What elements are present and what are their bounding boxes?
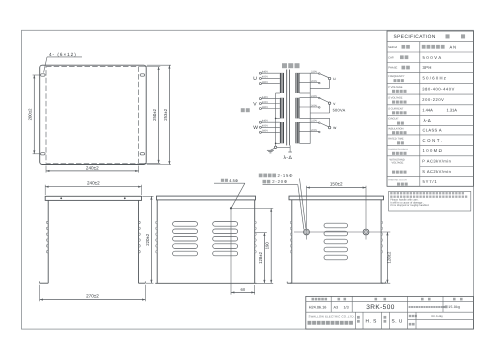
rear view: louver bumps left wall xyxy=(290,221,292,223)
title block vertical lines xyxy=(330,296,332,312)
secondary tap contact xyxy=(319,107,321,109)
side view: flange screw dots xyxy=(60,197,62,199)
svg-text:5Y7/1: 5Y7/1 xyxy=(423,179,438,184)
primary W tap terminal circle xyxy=(259,121,261,123)
size label xyxy=(409,315,411,317)
weight approx 15.0kg xyxy=(445,305,448,308)
svg-text:200V: 200V xyxy=(311,104,317,107)
svg-text:440V: 440V xyxy=(262,96,268,99)
svg-text:RATED TIME: RATED TIME xyxy=(388,137,404,140)
wire W tap 440V xyxy=(261,121,280,123)
front view: louver bumps left wall xyxy=(156,221,158,223)
primary W tap terminal circle xyxy=(259,131,261,133)
ground symbol xyxy=(271,148,275,150)
svg-text:220V: 220V xyxy=(311,71,317,74)
approved label xyxy=(357,316,360,319)
rear view: right foot xyxy=(381,282,386,284)
dimension 190 front view xyxy=(270,208,272,283)
svg-text:λ-Δ: λ-Δ xyxy=(284,155,293,161)
secondary tap contact xyxy=(319,97,321,99)
svg-text:400V: 400V xyxy=(262,76,268,79)
wire secondary u tap 220V xyxy=(300,72,319,74)
dimension 240±2 below top view xyxy=(45,166,47,173)
dimension 150±2 between bushings xyxy=(307,187,367,189)
wire v terminal link xyxy=(329,104,331,113)
wire V winding bottom to star bus xyxy=(276,117,280,119)
svg-text:Method: Method xyxy=(388,46,397,49)
primary V tap terminal circle xyxy=(259,108,261,110)
star bus junction dot V xyxy=(275,118,277,120)
svg-text:380V: 380V xyxy=(262,81,268,84)
bushing 1 vertical center line xyxy=(306,186,308,240)
header scale xyxy=(338,298,341,301)
delta bus vertical wire xyxy=(309,73,311,143)
front view: right wall xyxy=(254,200,256,283)
neutral terminal circle xyxy=(274,146,276,148)
front view: louver slots column 1 xyxy=(173,222,198,227)
handling note box xyxy=(389,191,471,211)
svg-text:INSULATION: INSULATION xyxy=(388,127,403,130)
bushing 2 vertical center line xyxy=(365,186,367,240)
hole position point xyxy=(230,207,232,209)
top view: mounting slot top-left 6x12 xyxy=(41,74,46,76)
wire V tap 440V xyxy=(261,98,280,100)
drawing number label xyxy=(409,323,412,326)
top view: mounting slot top-right xyxy=(140,74,145,76)
extension line at 128 level xyxy=(255,232,267,234)
wire u terminal link xyxy=(329,80,331,89)
primary V tap terminal circle xyxy=(259,103,261,105)
bushing 2 circles xyxy=(363,229,369,235)
svg-text:W: W xyxy=(253,125,258,131)
svg-text:400V: 400V xyxy=(262,125,268,128)
wire w winding bottom to delta bus xyxy=(300,143,311,145)
secondary tap contact xyxy=(319,131,321,133)
header weight xyxy=(453,298,456,301)
rear view: louver bumps right wall xyxy=(381,221,383,223)
leader to bushing 2 xyxy=(298,185,304,230)
svg-text:P AC3kV/min: P AC3kV/min xyxy=(422,159,451,164)
secondary winding w block xyxy=(295,122,299,143)
side view: left foot xyxy=(40,282,49,284)
front view: left wall xyxy=(156,200,158,283)
svg-text:380V: 380V xyxy=(262,106,268,109)
primary star bus wire xyxy=(275,93,277,146)
note japanese line 2 xyxy=(390,196,392,198)
svg-text:CAP.: CAP. xyxy=(388,56,394,59)
top view: mounting slot bottom-left xyxy=(41,153,46,155)
dimension 128±2 rear view xyxy=(386,232,388,283)
wire U tap 440V xyxy=(261,72,280,74)
secondary tap contact xyxy=(319,122,321,124)
specification table row lines xyxy=(387,41,473,43)
front view: bottom extension for dims xyxy=(254,285,256,295)
svg-text:SPECIFICATION: SPECIFICATION xyxy=(394,34,436,40)
dimension 250±2 right of top view xyxy=(139,66,160,68)
side view: right foot xyxy=(139,282,146,284)
svg-text:500VA: 500VA xyxy=(423,55,443,60)
star bus junction dot W xyxy=(275,143,277,145)
company name japanese xyxy=(308,321,312,325)
leader to bushing 1 xyxy=(300,179,306,229)
drawn label xyxy=(384,316,387,319)
wire W winding bottom to star bus xyxy=(276,142,280,144)
specification table outline xyxy=(387,31,473,186)
svg-text:200±2: 200±2 xyxy=(28,108,33,121)
svg-text:A3: A3 xyxy=(334,305,339,309)
core ground lead xyxy=(289,145,291,151)
svg-text:U: U xyxy=(253,76,257,82)
rear view: left foot xyxy=(287,282,292,284)
svg-text:15.0kg: 15.0kg xyxy=(448,305,460,309)
svg-text:CLASS A: CLASS A xyxy=(423,128,442,133)
svg-text:500VA: 500VA xyxy=(333,108,346,113)
wire v winding bottom, runs to w terminal xyxy=(300,117,330,119)
svg-text:250±2: 250±2 xyxy=(152,108,157,121)
wire U winding bottom to star bus xyxy=(276,92,280,94)
top view: plate outline xyxy=(40,65,147,164)
bushing 1 circles xyxy=(304,229,310,235)
secondary winding u block xyxy=(295,73,299,93)
primary U tap terminal circle xyxy=(259,72,261,74)
svg-text:200V: 200V xyxy=(311,129,317,132)
svg-text:380-400-440V: 380-400-440V xyxy=(422,86,455,91)
side view: louver profile bumps left wall xyxy=(47,221,49,223)
title block outline xyxy=(306,296,474,329)
svg-text:380V: 380V xyxy=(262,130,268,133)
svg-text:128±2: 128±2 xyxy=(258,251,263,264)
selector wire to w 220V tap xyxy=(320,123,329,127)
three-phase label SANSO xyxy=(241,108,245,112)
dimension 253±2 far right of top view xyxy=(147,64,171,66)
primary U tap terminal circle xyxy=(259,77,261,79)
note japanese line 1 xyxy=(390,192,392,194)
front view: top flange xyxy=(157,196,256,200)
primary U tap terminal circle xyxy=(259,83,261,85)
core ground tick xyxy=(288,151,292,153)
drawing frame border xyxy=(22,30,474,329)
selector wire to u 220V tap xyxy=(320,74,329,78)
svg-text:3RK-500: 3RK-500 xyxy=(366,304,394,311)
svg-text:RK-S-4kg: RK-S-4kg xyxy=(431,315,443,318)
header issue date xyxy=(312,298,315,301)
front view: louver bumps right wall xyxy=(255,221,257,223)
svg-text:100MΩ: 100MΩ xyxy=(423,148,444,153)
rear view: top flange xyxy=(289,196,384,200)
svg-text:60: 60 xyxy=(241,287,246,292)
primary winding U block xyxy=(280,73,284,93)
machine description xyxy=(409,306,411,308)
wire neutral to core ground xyxy=(277,146,290,148)
dimension 240±2 above side view xyxy=(44,185,46,195)
svg-text:4- (6×12): 4- (6×12) xyxy=(49,52,77,57)
svg-text:PAINTING COLOR: PAINTING COLOR xyxy=(388,179,407,182)
svg-text:2-20Φ: 2-20Φ xyxy=(272,179,288,184)
svg-text:CIRCUIT: CIRCUIT xyxy=(388,118,399,121)
svg-text:1.31A: 1.31A xyxy=(447,108,458,113)
side view: top flange xyxy=(45,196,141,200)
svg-text:220V: 220V xyxy=(311,95,317,98)
svg-text:240±2: 240±2 xyxy=(87,181,100,186)
svg-text:CONT.: CONT. xyxy=(423,138,444,143)
side view: right wall xyxy=(138,200,140,283)
primary winding W block xyxy=(280,122,284,143)
top view: hidden case outline (dashed) xyxy=(46,67,139,164)
svg-text:FREQUENCY: FREQUENCY xyxy=(388,75,405,78)
svg-text:4.5Φ: 4.5Φ xyxy=(229,178,238,183)
dimension 60 below front view xyxy=(231,291,255,293)
bushing labels with leaders xyxy=(259,174,263,178)
svg-text:S AC2kV/min: S AC2kV/min xyxy=(422,169,451,174)
primary W tap terminal circle xyxy=(259,126,261,128)
svg-text:190: 190 xyxy=(265,242,270,250)
wire V tap 380V xyxy=(261,108,280,110)
svg-text:P VOLTAGE: P VOLTAGE xyxy=(388,86,403,89)
transformer core lines xyxy=(286,70,288,146)
wiring diagram title KETSUSENZU xyxy=(282,63,287,68)
hole position extension lines xyxy=(230,208,232,294)
primary winding V block xyxy=(280,98,284,119)
secondary tap contact xyxy=(319,73,321,75)
dimension 270±2 below side view xyxy=(39,285,41,301)
secondary terminal v circle xyxy=(328,102,330,104)
wire V tap 400V xyxy=(261,103,280,105)
svg-text:200-220V: 200-220V xyxy=(422,97,444,102)
secondary terminal w circle xyxy=(328,126,330,128)
primary V tap terminal circle xyxy=(259,98,261,100)
secondary tap contact xyxy=(319,82,321,84)
svg-text:1.44A: 1.44A xyxy=(422,108,433,113)
wire secondary v tap 200V xyxy=(300,106,319,108)
svg-text:200V: 200V xyxy=(311,80,317,83)
title block horizontal lines xyxy=(306,301,474,303)
svg-text:SWALLOW ELECTRIC CO.,LTD.: SWALLOW ELECTRIC CO.,LTD. xyxy=(309,315,355,319)
svg-text:440V: 440V xyxy=(262,120,268,123)
wire U tap 400V xyxy=(261,77,280,79)
svg-text:220V: 220V xyxy=(311,120,317,123)
dimension 220±2 right of side view xyxy=(142,195,153,197)
rear view bottom extension xyxy=(383,282,390,284)
svg-text:2-15Φ: 2-15Φ xyxy=(278,173,294,178)
dimension 200±2 left of top view xyxy=(33,74,40,76)
svg-text:150±2: 150±2 xyxy=(330,181,343,186)
svg-text:3PH: 3PH xyxy=(423,65,432,70)
front view: bottom edge xyxy=(155,282,256,284)
svg-text:PHASE: PHASE xyxy=(388,67,397,70)
selector wire to v 220V tap xyxy=(320,98,329,102)
rear view: bottom edge xyxy=(290,282,383,284)
header machine type xyxy=(421,298,424,301)
wire U tap 380V xyxy=(261,83,280,85)
svg-text:50/60Hz: 50/60Hz xyxy=(423,76,448,81)
svg-text:128±2: 128±2 xyxy=(387,251,392,264)
wire W tap 400V xyxy=(261,126,280,128)
svg-text:if it is dropped or roughly ha: if it is dropped or roughly handled. xyxy=(390,204,429,207)
wire u winding bottom to delta bus xyxy=(300,92,311,94)
wire secondary w tap 220V xyxy=(300,121,319,123)
secondary winding v block xyxy=(295,98,299,119)
svg-text:H24.06.16: H24.06.16 xyxy=(309,305,327,309)
svg-text:220±2: 220±2 xyxy=(145,233,150,246)
wire secondary w tap 200V xyxy=(300,131,319,133)
specification table column divider xyxy=(419,42,421,187)
top view: mounting slot bottom-right xyxy=(140,153,145,155)
svg-text:H. S: H. S xyxy=(366,318,377,324)
dimension 128±2 front view xyxy=(263,233,265,284)
svg-text:λ-Δ: λ-Δ xyxy=(424,118,432,123)
rear view: louver slots xyxy=(324,223,348,228)
header model xyxy=(375,298,378,301)
side view: louver profile bumps right wall xyxy=(139,221,141,223)
wire secondary u tap 200V xyxy=(300,82,319,84)
svg-text:240±2: 240±2 xyxy=(86,166,99,171)
svg-text:VOLTAGE: VOLTAGE xyxy=(392,162,404,165)
front view: louver slots column 2 xyxy=(213,222,238,227)
bushing center line xyxy=(294,231,390,233)
rear view: left wall xyxy=(291,200,293,283)
svg-text:Insulation Resistance: Insulation Resistance xyxy=(388,148,409,151)
svg-text:AN: AN xyxy=(450,44,458,49)
svg-text:253±2: 253±2 xyxy=(163,108,168,121)
rear view: right wall xyxy=(380,200,382,283)
row withstand S AC2kV/min xyxy=(392,171,395,174)
wire secondary v tap 220V xyxy=(300,97,319,99)
wire W tap 380V xyxy=(261,131,280,133)
svg-text:S. U: S. U xyxy=(392,318,403,324)
side view: left wall xyxy=(47,200,49,283)
svg-text:270±2: 270±2 xyxy=(86,294,99,299)
label left-right 4.5 dia with leader xyxy=(221,179,224,182)
svg-text:S CURRENT: S CURRENT xyxy=(388,107,404,110)
svg-text:1/3: 1/3 xyxy=(344,305,349,309)
svg-text:400V: 400V xyxy=(262,101,268,104)
svg-text:S VOLTAGE: S VOLTAGE xyxy=(388,97,403,100)
svg-text:440V: 440V xyxy=(262,71,268,74)
secondary terminal u circle xyxy=(328,77,330,79)
